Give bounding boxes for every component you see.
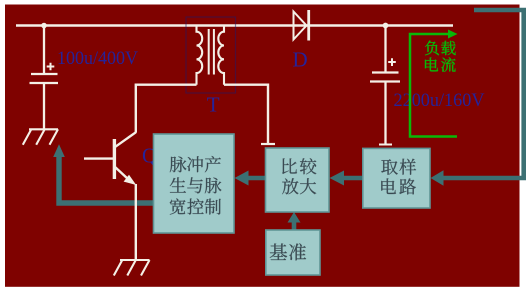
diode D cathode bar	[307, 10, 310, 41]
transformer T core box (selection rectangle)	[186, 17, 236, 93]
wire (teal) compare-amplify to pulse box	[248, 176, 266, 181]
wire top bus	[16, 24, 453, 27]
transformer T primary winding	[197, 26, 203, 85]
block: reference	[266, 230, 320, 275]
wire (teal) reference to compare-amplify	[292, 222, 297, 231]
arrowhead into compare-amplify box	[330, 171, 345, 186]
transistor Q base bar	[113, 139, 116, 179]
transistor Q emitter stroke with arrow	[115, 167, 129, 180]
arrowhead up into compare-amplify box	[288, 212, 301, 223]
wire feedback connector (teal) from output to sampling circuit	[443, 10, 524, 178]
capacitor C1 plus sign	[47, 63, 55, 71]
wire secondary bottom to compare-amplify terminal	[224, 85, 268, 144]
svg-text:T: T	[207, 92, 220, 116]
capacitor C2 lead bottom with terminal bar	[384, 82, 386, 145]
wire base drive (teal) from pulse box to transistor Q base	[59, 152, 154, 203]
capacitor C2 lead top	[384, 26, 386, 73]
transistor Q emitter arrowhead	[124, 175, 137, 185]
node B junction dot at output capacitor	[383, 23, 389, 29]
load current arrowhead (green)	[448, 30, 458, 39]
arrowhead into sampling circuit box	[431, 170, 444, 186]
capacitor C1 lead bottom	[43, 83, 45, 129]
capacitor C1 plates	[31, 73, 58, 75]
svg-text:2200u/160V: 2200u/160V	[394, 90, 485, 111]
block: sampling circuit	[363, 148, 430, 208]
svg-text:D: D	[293, 48, 308, 72]
arrowhead pointing up at transistor base	[53, 144, 65, 157]
block: compare amplify	[266, 148, 330, 212]
load current label (green)	[425, 41, 439, 56]
wire primary bottom to collector	[136, 85, 197, 133]
arrowhead into pulse box	[235, 171, 249, 186]
transistor Q base lead	[84, 157, 114, 159]
transformer T core lines	[209, 29, 214, 75]
transformer T secondary winding	[218, 26, 224, 85]
load current indicator bracket (green)	[410, 34, 457, 137]
transistor Q collector stroke	[115, 132, 136, 147]
diode D triangle	[294, 12, 307, 40]
wire (teal) sampling circuit to compare-amplify	[344, 176, 364, 181]
block: pulse generation and width control	[154, 134, 235, 233]
node A junction dot at input capacitor	[41, 23, 47, 29]
capacitor C1 lead top	[43, 26, 45, 74]
wire emitter to ground	[135, 184, 137, 260]
capacitor C2 plates	[372, 71, 399, 73]
ground G1 (left, input cap)	[23, 129, 58, 144]
capacitor C2 plus sign	[388, 58, 396, 66]
ground G2 (emitter)	[114, 260, 150, 276]
svg-text:100u/400V: 100u/400V	[57, 49, 139, 69]
